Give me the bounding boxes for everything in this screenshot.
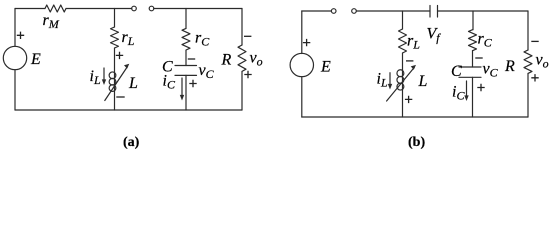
svg-text:vo: vo	[536, 52, 549, 71]
label + of E b	[303, 39, 310, 46]
wire rC branch top b	[472, 11, 474, 30]
capacitor Vf plates	[429, 6, 431, 18]
resistor R	[238, 45, 246, 71]
switch terminal left b	[331, 9, 336, 14]
wire rL branch top b	[402, 11, 404, 29]
svg-text:Vf: Vf	[427, 26, 442, 45]
wire Vf to top-right corner	[438, 10, 529, 12]
svg-text:rL: rL	[122, 29, 135, 48]
wire left rail lower	[14, 70, 16, 110]
svg-text:iL: iL	[377, 71, 388, 90]
label + of E	[17, 32, 24, 39]
variable inductor arrow	[105, 67, 128, 101]
label - of vC	[188, 58, 195, 60]
svg-text:C: C	[451, 63, 462, 80]
label + of vC b	[477, 84, 484, 91]
source E circle	[3, 46, 26, 69]
wire rM to switch	[66, 8, 132, 10]
svg-text:(b): (b)	[408, 135, 425, 150]
svg-text:rM: rM	[43, 12, 60, 31]
wire rL branch top	[114, 9, 116, 28]
wire top-left segment b	[302, 10, 332, 12]
svg-text:rC: rC	[478, 31, 493, 50]
capacitor C plates b	[459, 66, 481, 68]
resistor R b	[524, 50, 532, 73]
label - of vo b	[531, 40, 538, 42]
wire capacitor to bottom	[185, 75, 187, 110]
wire rC to capacitor b	[472, 51, 474, 67]
current arrow iL	[103, 68, 105, 81]
resistor rL b	[399, 29, 407, 53]
wire R to bottom b	[527, 74, 529, 118]
wire rC branch top	[185, 9, 187, 29]
resistor rM	[45, 5, 66, 12]
wire left rail upper b	[301, 11, 303, 54]
svg-text:vC: vC	[483, 61, 499, 80]
svg-text:L: L	[128, 75, 138, 92]
resistor rC b	[469, 30, 477, 51]
svg-text:R: R	[504, 58, 515, 75]
label - of vC b	[475, 57, 482, 59]
svg-text:rL: rL	[407, 33, 420, 52]
label + of vC	[189, 80, 196, 87]
wire switch to Vf	[356, 10, 430, 12]
wire top-left segment	[15, 8, 45, 10]
current arrow iL b	[389, 73, 391, 86]
switch terminal left	[132, 6, 137, 11]
svg-text:(a): (a)	[123, 135, 140, 150]
current arrow iC b	[466, 81, 468, 97]
wire left rail upper	[14, 9, 16, 47]
resistor rC	[182, 28, 190, 50]
switch terminal right b	[352, 9, 357, 14]
wire left rail lower b	[301, 77, 303, 117]
capacitor C plates	[175, 65, 197, 67]
wire bottom rail	[15, 109, 242, 111]
label + of vo	[244, 71, 251, 78]
svg-text:L: L	[418, 73, 428, 90]
svg-text:vC: vC	[199, 62, 215, 81]
label - of vo	[244, 35, 251, 37]
label + of L b	[405, 96, 412, 103]
switch terminal right	[149, 6, 154, 11]
wire capacitor to bottom b	[472, 77, 474, 117]
svg-text:rC: rC	[195, 30, 210, 49]
variable inductor arrow b	[387, 68, 415, 102]
svg-text:iL: iL	[90, 68, 101, 87]
wire rL to L	[114, 48, 116, 110]
svg-text:vo: vo	[250, 50, 263, 69]
label + of vo b	[531, 74, 538, 81]
inductor L coil	[109, 72, 116, 79]
source E circle b	[290, 53, 313, 76]
svg-text:R: R	[221, 52, 232, 69]
wire R to bottom	[241, 72, 243, 111]
label - of L b	[406, 60, 413, 62]
current arrow iC	[181, 78, 183, 97]
wire R branch right rail	[241, 9, 243, 46]
wire rC to capacitor	[185, 50, 187, 65]
svg-text:E: E	[320, 59, 331, 76]
svg-text:iC: iC	[452, 84, 465, 103]
wire bottom rail b	[302, 116, 528, 118]
wire switch to top-right corner	[154, 8, 242, 10]
svg-text:E: E	[30, 51, 41, 68]
label + of L	[116, 52, 123, 59]
resistor rL	[111, 27, 119, 48]
inductor L coil b	[397, 70, 404, 77]
wire R branch right rail b	[527, 11, 529, 50]
wire rL to L b	[402, 53, 404, 117]
label - of L	[116, 96, 124, 98]
